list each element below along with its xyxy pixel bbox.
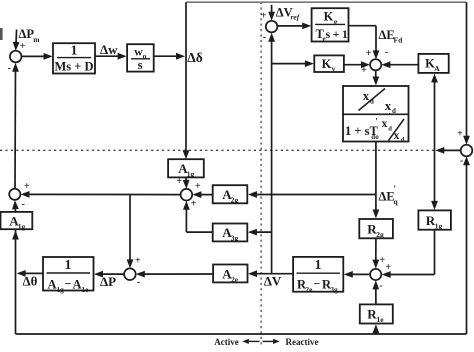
svg-text:-: - (385, 47, 388, 58)
svg-text:+: + (366, 48, 372, 59)
svg-text:': ' (388, 111, 390, 121)
svg-text:3g: 3g (331, 286, 339, 294)
svg-text:1g: 1g (57, 286, 65, 294)
svg-text:d: d (388, 126, 392, 133)
svg-text:': ' (370, 84, 373, 94)
svg-text:2g: 2g (231, 195, 239, 204)
svg-text:ΔV: ΔV (264, 274, 282, 289)
svg-text:d: d (392, 107, 396, 115)
svg-text:+: + (20, 41, 26, 52)
svg-text:2e: 2e (306, 286, 313, 294)
svg-text:2e: 2e (231, 275, 239, 284)
svg-text:ref: ref (291, 13, 301, 22)
svg-text:1g: 1g (187, 169, 195, 178)
svg-text:x: x (382, 118, 388, 130)
svg-text:': ' (375, 117, 378, 127)
svg-text:1g: 1g (18, 222, 26, 231)
svg-text:2g: 2g (376, 230, 384, 239)
svg-text:do: do (371, 133, 379, 141)
svg-text:s + 1: s + 1 (326, 27, 348, 41)
svg-text:Δθ: Δθ (23, 274, 38, 289)
svg-text:+: + (176, 176, 182, 187)
svg-text:-: - (22, 199, 25, 210)
svg-text:v: v (332, 64, 336, 73)
svg-text:1e: 1e (82, 286, 89, 294)
svg-text:': ' (394, 184, 397, 194)
svg-text:x: x (363, 89, 370, 103)
svg-text:ΔE: ΔE (379, 28, 395, 42)
svg-text:+: + (195, 181, 201, 192)
svg-text:+: + (385, 262, 391, 273)
svg-text:m: m (33, 35, 40, 44)
svg-text:+: + (457, 129, 463, 140)
svg-text:ΔP: ΔP (19, 27, 35, 41)
svg-text:1: 1 (71, 43, 78, 58)
svg-text:1: 1 (65, 257, 72, 272)
svg-text:+: + (191, 198, 197, 209)
svg-text:1: 1 (315, 257, 322, 272)
svg-text:s: s (138, 58, 143, 72)
svg-text:Active: Active (214, 337, 239, 347)
svg-text:-: - (137, 277, 140, 288)
svg-text:-: - (8, 63, 11, 74)
svg-text:-: - (379, 281, 382, 292)
svg-text:Fd: Fd (394, 35, 404, 44)
svg-text:+: + (24, 181, 30, 192)
svg-text:Δδ: Δδ (187, 50, 202, 65)
svg-text:x: x (394, 130, 400, 142)
svg-text:ΔE: ΔE (379, 190, 395, 204)
svg-text:A: A (48, 278, 57, 292)
svg-text:Reactive: Reactive (286, 337, 319, 347)
svg-text:A: A (434, 64, 440, 73)
svg-text:1e: 1e (376, 315, 384, 324)
svg-text:K: K (324, 10, 334, 24)
svg-text:3g: 3g (231, 233, 239, 242)
svg-text:+: + (261, 10, 267, 21)
svg-text:A: A (73, 278, 82, 292)
svg-text:−: − (314, 277, 321, 291)
svg-text:Ms + D: Ms + D (54, 59, 93, 73)
svg-text:−: − (65, 277, 72, 291)
svg-text:+: + (135, 255, 141, 266)
svg-text:-: - (263, 32, 266, 43)
svg-text:Δw: Δw (100, 42, 118, 57)
svg-text:1g: 1g (435, 221, 443, 230)
svg-text:-: - (460, 156, 463, 167)
svg-text:K: K (322, 57, 332, 71)
svg-text:ΔP: ΔP (100, 274, 116, 289)
